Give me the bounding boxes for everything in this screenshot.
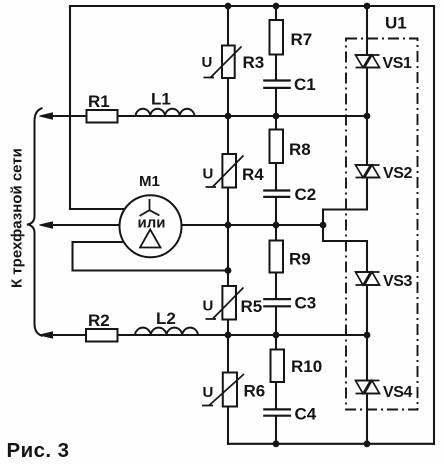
resistor R9 [270, 241, 284, 273]
wire varistor chain bottom [227, 407, 229, 444]
node top bus / varistor chain [225, 3, 232, 10]
wire C2-phaseB [275, 198, 277, 225]
node motor terminal 3 / varistor chain [225, 267, 232, 274]
node phase A / varistor chain [225, 113, 232, 120]
svg-text:Рис. 3: Рис. 3 [7, 439, 70, 461]
svg-text:R7: R7 [291, 30, 313, 49]
wire motor terminal 3 loop [73, 242, 229, 271]
triac VS2 [356, 165, 380, 178]
wire VS1 anode [366, 6, 368, 55]
varistor R6 [223, 373, 237, 407]
capacitor C4 [263, 409, 291, 415]
svg-text:L1: L1 [151, 90, 171, 109]
arrow phase C [40, 332, 53, 338]
node phase B / varistor chain [225, 222, 232, 229]
wire right bus [433, 6, 435, 444]
wire VS2 cathode step [323, 178, 367, 210]
node phase C / snubber chain [273, 332, 280, 339]
node phase A / snubber chain [273, 113, 280, 120]
wire varistor chain R5-R6 [227, 320, 229, 373]
svg-text:C4: C4 [295, 405, 317, 424]
triac VS4 [356, 381, 380, 394]
wire C4-bottom [275, 417, 277, 444]
node phase A / VS1-VS2 [364, 113, 371, 120]
brace three-phase network [27, 108, 43, 336]
svg-text:R3: R3 [243, 53, 265, 72]
arrow phase A [40, 113, 53, 119]
node phase B / VS2-VS3 step [320, 222, 327, 229]
capacitor C3 [263, 299, 291, 306]
svg-text:L2: L2 [156, 309, 176, 328]
wire phase B right [182, 224, 324, 226]
node top bus / snubber chain [273, 3, 280, 10]
wire VS3 anode step [323, 241, 367, 272]
resistor R10 [271, 350, 285, 383]
svg-text:VS4: VS4 [383, 384, 413, 401]
wire R10-C4 [275, 382, 277, 408]
wire VS4 anode [366, 335, 368, 381]
inductor L2 [135, 328, 198, 335]
node bottom bus / snubber chain [273, 440, 280, 447]
svg-text:U: U [203, 384, 214, 401]
svg-text:R1: R1 [88, 92, 110, 111]
inductor L1 [136, 109, 195, 116]
wire phase B step vertical [322, 210, 324, 242]
node top bus / VS1 [364, 3, 371, 10]
svg-text:U1: U1 [385, 14, 407, 33]
varistor R3 slash [204, 47, 242, 78]
wire varistor chain R4-R5 [227, 188, 229, 287]
wire snubber top [275, 6, 277, 20]
wire R8-C2 [275, 163, 277, 189]
node bottom bus / VS4 [364, 440, 371, 447]
svg-text:К трехфазной сети: К трехфазной сети [9, 148, 26, 288]
node phase C / VS3-VS4 [364, 332, 371, 339]
wire C3-phaseC [275, 307, 277, 335]
svg-text:C3: C3 [295, 294, 317, 313]
wire phaseA-R8 [275, 116, 277, 130]
capacitor C2 [263, 191, 290, 197]
varistor R6 slash [202, 374, 244, 406]
wire left bus vertical [69, 6, 71, 209]
wire C1-phaseA [275, 89, 277, 116]
svg-text:C2: C2 [295, 185, 317, 204]
wire VS1 cathode [366, 68, 368, 117]
svg-text:R6: R6 [244, 382, 266, 401]
svg-text:R2: R2 [88, 311, 110, 330]
svg-text:VS3: VS3 [383, 273, 413, 290]
varistor R3 [222, 46, 235, 79]
wire VS3 cathode [366, 285, 368, 335]
wire phase B left [44, 224, 120, 226]
varistor R5 slash [206, 288, 244, 320]
triac VS1 [356, 55, 380, 68]
wire motor terminal 1 [70, 208, 125, 210]
wire R7-C1 [275, 55, 277, 80]
svg-text:R5: R5 [241, 297, 263, 316]
svg-text:U: U [203, 166, 214, 183]
wire phase C [44, 334, 367, 336]
svg-text:R4: R4 [242, 165, 264, 184]
wire VS4 cathode [366, 394, 368, 444]
resistor R1 [87, 110, 118, 123]
resistor R2 [86, 329, 118, 342]
wire phase A [44, 115, 367, 117]
node phase B / snubber chain [273, 222, 280, 229]
arrow phase B [40, 222, 53, 228]
optocoupler block U1 dash-dot box [346, 39, 418, 410]
svg-text:U: U [203, 298, 214, 315]
svg-text:M1: M1 [139, 173, 160, 190]
node phase C / varistor chain [225, 332, 232, 339]
svg-text:VS2: VS2 [383, 165, 413, 182]
svg-text:или: или [138, 215, 166, 232]
svg-text:R9: R9 [289, 250, 311, 269]
svg-text:R8: R8 [289, 140, 311, 159]
wire R9-C3 [275, 273, 277, 299]
motor delta symbol [140, 230, 161, 248]
varistor R4 slash [206, 156, 244, 188]
wire phaseC-R10 [275, 335, 277, 350]
wire varistor chain R3-R4 [227, 78, 229, 154]
svg-text:U: U [202, 54, 213, 71]
triac VS3 [356, 272, 380, 285]
resistor R8 [270, 130, 284, 164]
wire top bus [70, 5, 434, 7]
wire VS2 anode [366, 116, 368, 165]
wire bottom bus [228, 443, 434, 445]
capacitor C1 [263, 81, 291, 88]
wire phaseB-R9 [275, 225, 277, 241]
svg-text:C1: C1 [294, 75, 316, 94]
varistor R4 [222, 154, 236, 188]
svg-text:R10: R10 [291, 357, 322, 376]
svg-text:VS1: VS1 [383, 55, 413, 72]
resistor R7 [270, 20, 284, 55]
wire varistor chain top [227, 6, 229, 46]
motor M1 [120, 195, 182, 257]
varistor R5 [222, 286, 236, 320]
motor star symbol [140, 199, 160, 216]
